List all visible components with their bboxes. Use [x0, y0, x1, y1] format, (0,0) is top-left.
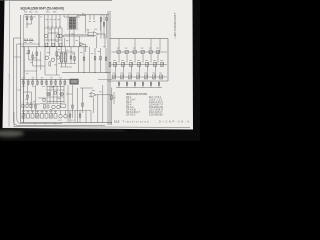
svg-text:CR-9,A-2: CR-9,A-2 — [126, 114, 136, 117]
svg-text:2SD-880-BD: 2SD-880-BD — [149, 115, 163, 117]
svg-text:SEMICONDUCTORS: SEMICONDUCTORS — [126, 93, 147, 96]
svg-text:11.2: 11.2 — [114, 119, 120, 123]
svg-text:EQUALIZER 604T (51-1469-00): EQUALIZER 604T (51-1469-00) — [21, 7, 65, 11]
svg-text:Transistored: Transistored — [123, 119, 150, 123]
svg-text:L-610 CHASSIS ASS'Y: L-610 CHASSIS ASS'Y — [174, 12, 177, 38]
